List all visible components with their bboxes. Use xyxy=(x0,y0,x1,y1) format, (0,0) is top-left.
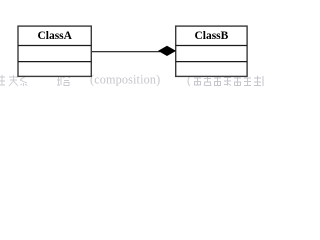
svg-text:ClassB: ClassB xyxy=(194,30,228,42)
svg-text:ClassA: ClassA xyxy=(37,30,72,42)
wire: association line ClassA to diamond xyxy=(91,51,160,53)
faint caption right cluster (CJK-like marks) xyxy=(188,76,263,87)
ClassA operation separator xyxy=(18,61,91,63)
faint caption char 4 xyxy=(57,76,61,85)
faint caption char (cut) left edge xyxy=(0,75,5,85)
faint caption char 3 xyxy=(20,76,27,86)
class box ClassA xyxy=(18,26,91,76)
class box ClassB xyxy=(176,26,247,76)
ClassB attribute separator xyxy=(176,45,247,47)
faint caption char 5 xyxy=(63,76,70,86)
ClassA attribute separator xyxy=(18,45,91,47)
ClassB operation separator xyxy=(176,61,247,63)
faint caption char 2 xyxy=(9,75,18,86)
svg-text:(composition): (composition) xyxy=(90,73,160,87)
composition diamond at ClassB xyxy=(159,46,176,56)
